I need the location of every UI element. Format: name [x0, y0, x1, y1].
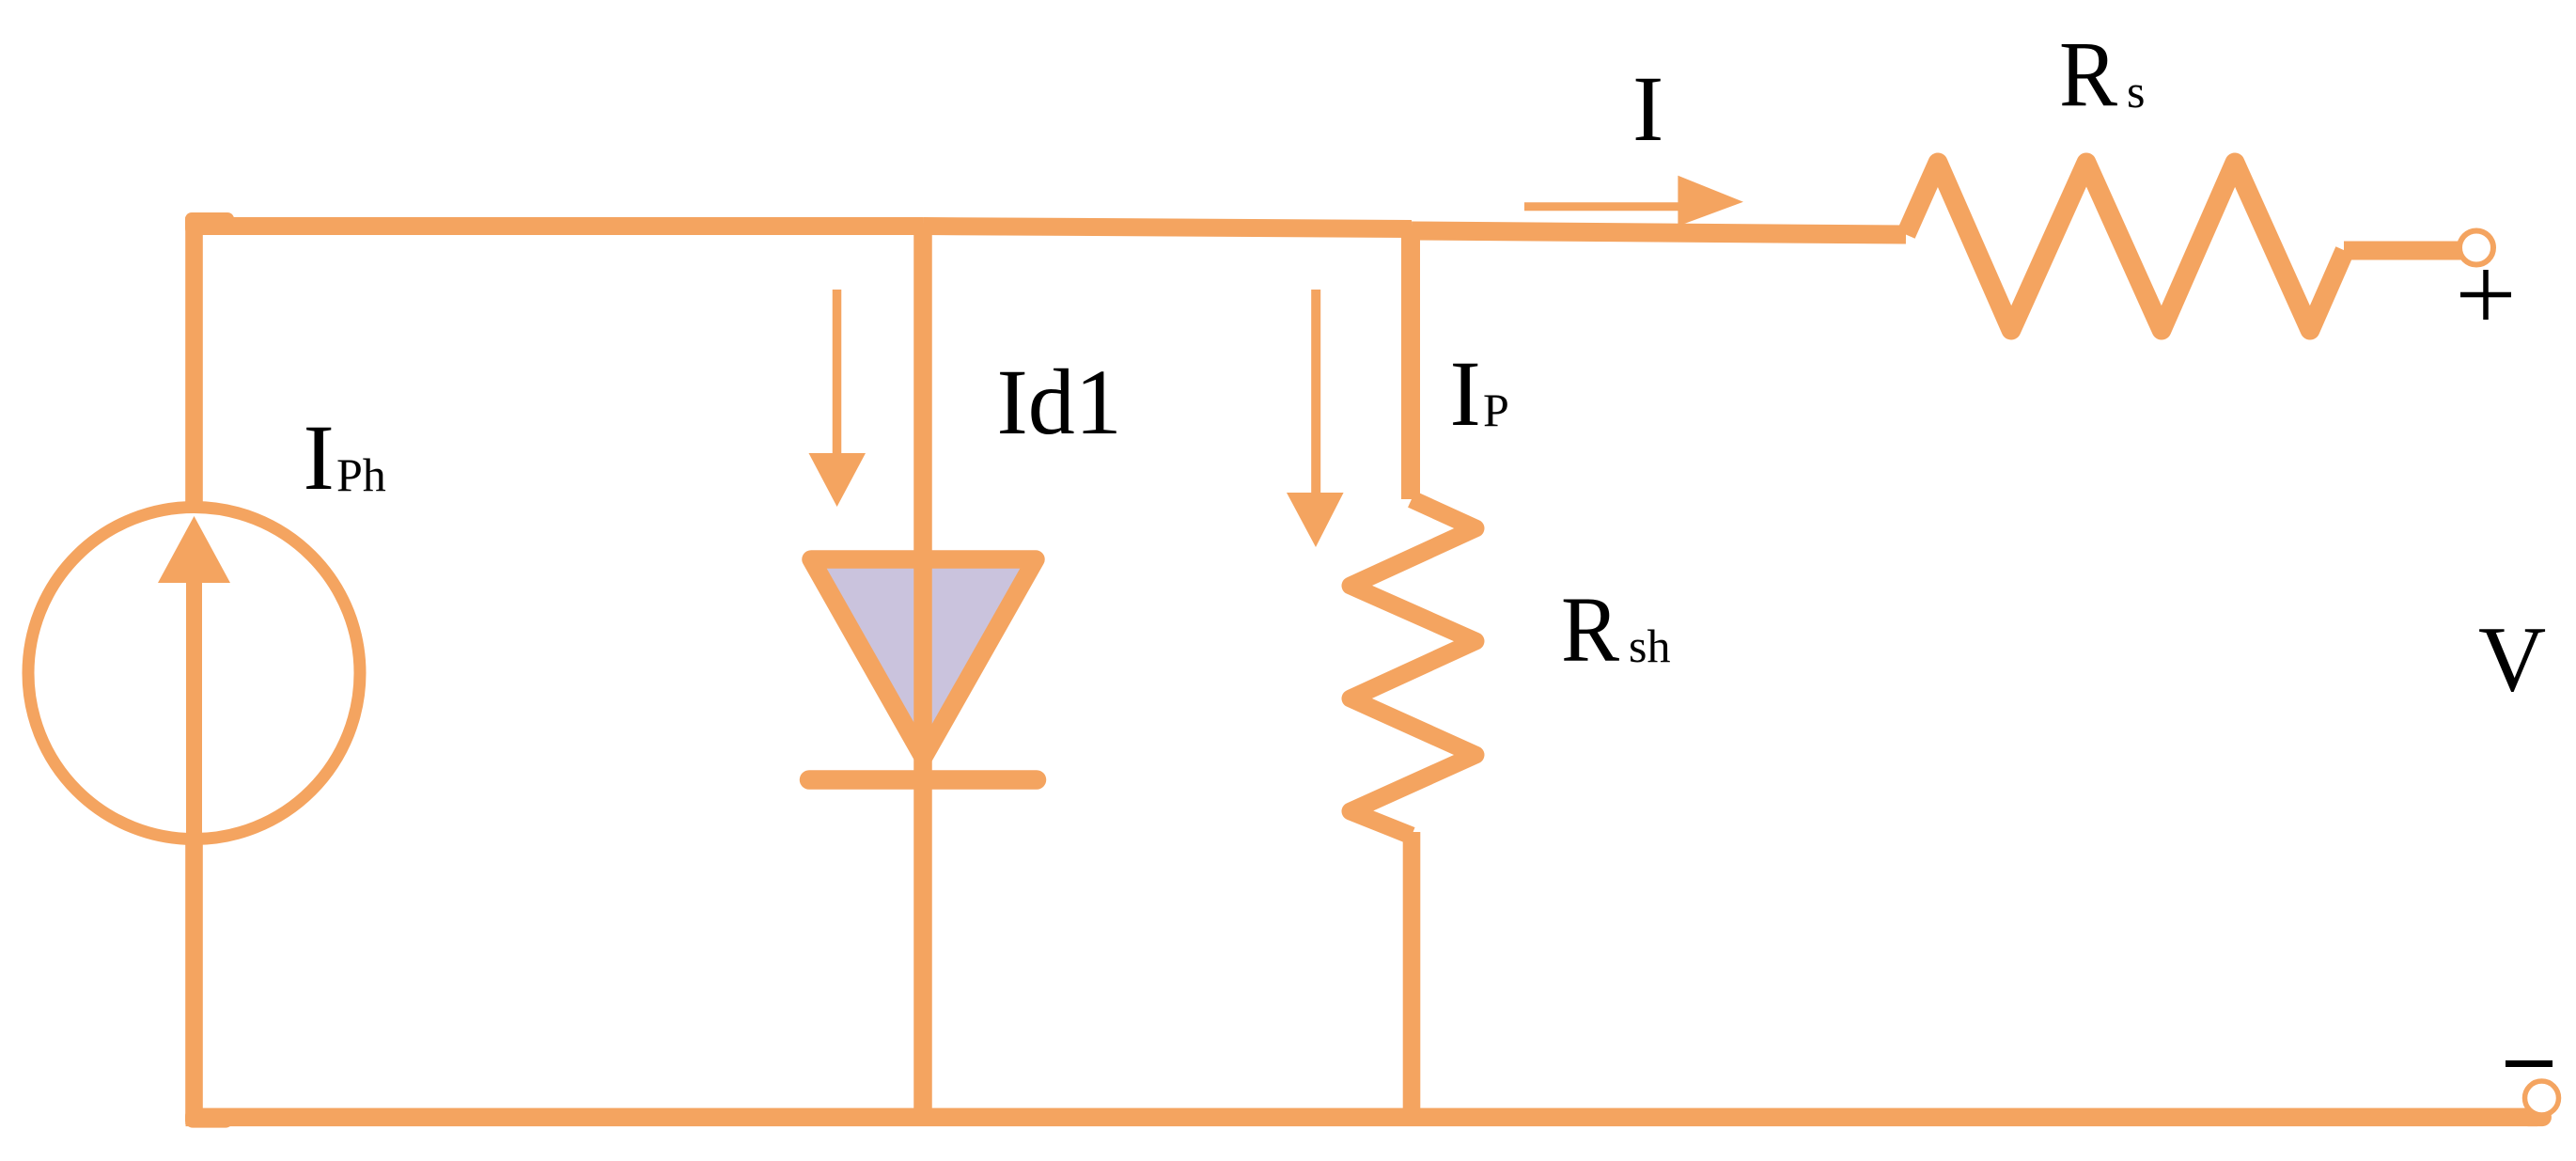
wire top bus: corner to diode junction — [186, 217, 924, 235]
wire Rsh branch upper vertical — [1401, 226, 1420, 499]
wire Rsh branch lower vertical — [1403, 832, 1421, 1119]
svg-text:I: I — [1632, 56, 1663, 161]
resistor Rs zigzag — [1906, 163, 2345, 330]
svg-text:sh: sh — [1629, 620, 1670, 672]
wire left vertical upper — [185, 217, 203, 512]
svg-text:R: R — [2059, 22, 2118, 126]
svg-text:P: P — [1483, 384, 1509, 436]
node A (top-left corner stub) — [185, 212, 234, 235]
wire bottom bus rounded right end — [2528, 1108, 2542, 1127]
terminal node minus circle — [2525, 1081, 2559, 1115]
svg-text:Id1: Id1 — [997, 350, 1122, 454]
svg-text:s: s — [2127, 65, 2145, 118]
arrow I current head — [1678, 176, 1743, 227]
minus sign — [2506, 1060, 2553, 1067]
resistor Rsh zigzag — [1350, 499, 1475, 836]
wire left vertical lower — [185, 835, 203, 1124]
current source IPh circle — [28, 508, 360, 839]
wire top bus: diode junction to Rsh junction — [923, 227, 1412, 229]
wire Rs to plus terminal — [2344, 242, 2462, 260]
wire diode branch vertical — [913, 226, 932, 1119]
arrow IP current head — [1287, 493, 1344, 547]
svg-text:I: I — [304, 405, 335, 510]
diode D1 triangle — [811, 559, 1036, 758]
wire bottom bus — [186, 1108, 2538, 1127]
terminal node plus circle — [2459, 231, 2493, 265]
arrow Id1 current shaft — [833, 290, 842, 453]
wire top bus: Rsh junction to Rs — [1412, 231, 1906, 235]
svg-text:V: V — [2478, 607, 2546, 712]
node B (bottom-left corner stub) — [185, 1108, 233, 1128]
svg-text:Ph: Ph — [336, 448, 386, 501]
current source IPh arrow head — [158, 516, 230, 583]
arrow Id1 current head — [809, 453, 866, 507]
current source IPh arrow shaft — [186, 581, 202, 844]
plus sign vertical bar — [2483, 270, 2489, 320]
diode D1 cathode bar — [809, 770, 1037, 790]
svg-text:I: I — [1450, 341, 1481, 446]
arrow I current shaft — [1524, 202, 1682, 211]
svg-text:R: R — [1561, 576, 1620, 681]
arrow IP current shaft — [1311, 290, 1320, 493]
plus sign horizontal bar — [2460, 292, 2511, 298]
